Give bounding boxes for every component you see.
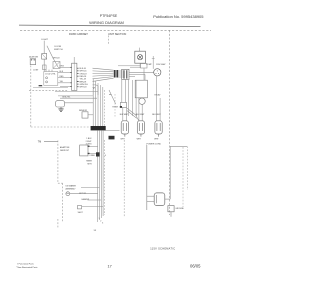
svg-text:115V 60HZ: 115V 60HZ	[156, 64, 166, 66]
ground	[60, 107, 62, 109]
svg-text:115V SCHEMATIC: 115V SCHEMATIC	[150, 247, 175, 250]
connector CN1	[72, 63, 77, 90]
compressor motor M1	[154, 69, 161, 76]
connector blob CN3	[109, 136, 115, 140]
run capacitor circle	[139, 98, 145, 104]
svg-text:CONT: CONT	[33, 70, 39, 72]
wires into connector left pins	[58, 67, 72, 86]
wire to relay block	[118, 65, 141, 67]
svg-text:* Non-Illuminated Parts: * Non-Illuminated Parts	[16, 266, 37, 269]
svg-text:# Functional Parts: # Functional Parts	[17, 262, 34, 265]
ice maker dashed border	[62, 183, 64, 222]
bus labels column	[86, 138, 96, 157]
svg-text:ADAPTIVE: ADAPTIVE	[60, 146, 70, 149]
svg-text:BLK WHT: BLK WHT	[152, 114, 161, 116]
top dashed border	[20, 29, 211, 31]
svg-text:UNIT SECTION: UNIT SECTION	[108, 32, 126, 36]
cord	[165, 198, 170, 200]
left dashed border	[30, 66, 32, 128]
dashed v right 1	[182, 147, 184, 207]
wire switch to bus	[53, 57, 58, 67]
connector bar CN2	[91, 126, 106, 130]
svg-text:RELAY: RELAY	[155, 93, 162, 96]
svg-text:WIRING DIAGRAM: WIRING DIAGRAM	[89, 20, 124, 25]
svg-text:HEATER: HEATER	[82, 198, 90, 201]
bus end labels	[99, 218, 104, 224]
overload protector box	[120, 103, 126, 108]
svg-text:BLK WHT: BLK WHT	[120, 114, 129, 116]
start relay arrow	[127, 108, 137, 116]
small component	[78, 206, 82, 209]
light switch S1 blade	[47, 46, 53, 58]
header rule	[19, 25, 201, 26]
svg-text:RED: RED	[60, 76, 65, 78]
svg-text:WHT: WHT	[137, 138, 142, 140]
svg-text:PTF54PSE: PTF54PSE	[100, 14, 118, 18]
wire loop to bus	[65, 102, 94, 104]
plug P3	[155, 121, 162, 137]
svg-text:ALM SW: ALM SW	[29, 55, 39, 58]
diagonal defrost limit	[109, 90, 116, 104]
ground box	[168, 206, 174, 212]
prong wires	[147, 195, 154, 197]
fan motor box	[139, 48, 141, 52]
wires to compressor	[129, 63, 154, 80]
connector pair CN4	[114, 70, 116, 78]
dashed v right 2	[186, 146, 188, 190]
svg-text:SWITCH: SWITCH	[54, 49, 63, 51]
svg-text:4 RED: 4 RED	[89, 155, 95, 157]
wire fan-out to unit section	[93, 68, 114, 95]
wires timer to bus	[90, 145, 98, 147]
door switch S3	[53, 62, 60, 69]
svg-text:BLK WHT: BLK WHT	[136, 114, 145, 116]
alarm switch S2	[30, 59, 36, 65]
svg-text:GROUND: GROUND	[175, 208, 184, 210]
svg-text:MTR: MTR	[88, 163, 93, 165]
lamp holder	[43, 65, 47, 70]
svg-text:3: 3	[102, 223, 103, 225]
svg-text:SHUT: SHUT	[78, 212, 84, 214]
wall plug	[154, 193, 165, 206]
wire	[58, 95, 93, 97]
power cord riser	[146, 145, 148, 210]
wire lamp to thermostat	[43, 59, 45, 71]
svg-text:ORG: ORG	[60, 66, 65, 68]
svg-text:17: 17	[107, 265, 111, 269]
wire color labels right of connector	[80, 68, 88, 89]
svg-text:FRZR CABINET: FRZR CABINET	[69, 32, 88, 36]
wire thermostat row	[33, 87, 68, 89]
svg-text:06/05: 06/05	[190, 264, 201, 269]
svg-text:Publication No. 5995438905: Publication No. 5995438905	[153, 14, 204, 19]
lower vertical bus	[98, 130, 103, 222]
wire sensor to bus	[88, 114, 93, 116]
ice maker wires	[70, 188, 103, 207]
svg-text:ASSEMBLY: ASSEMBLY	[66, 187, 77, 190]
svg-text:WHT-18: WHT-18	[80, 87, 87, 89]
wires down to plugs	[122, 76, 160, 121]
svg-text:YEL: YEL	[60, 81, 64, 83]
svg-text:DOOR: DOOR	[55, 46, 62, 48]
inner dashed box left border	[57, 141, 59, 184]
svg-text:WHT: WHT	[121, 138, 126, 140]
defrost timer box	[80, 145, 88, 156]
thermostat control box	[44, 72, 58, 86]
door heater loop	[56, 101, 65, 107]
dashed divider mid	[104, 90, 106, 126]
svg-text:TIMER: TIMER	[86, 161, 93, 163]
svg-text:COLD CTRL: COLD CTRL	[45, 74, 56, 76]
svg-text:WHT: WHT	[154, 138, 159, 140]
svg-text:XX: XX	[94, 230, 97, 232]
wire bus below connector	[55, 91, 98, 93]
connector blob CN6	[96, 152, 100, 156]
svg-text:LIGHT: LIGHT	[41, 39, 48, 41]
svg-text:TM: TM	[38, 141, 41, 143]
plug P2	[137, 121, 144, 137]
wires CN4 to CN5	[118, 71, 124, 77]
right dashed border	[169, 30, 171, 215]
connector CN1 pins	[70, 67, 78, 86]
wire lamp stem	[43, 41, 45, 54]
svg-text:POWER CORD: POWER CORD	[147, 144, 162, 146]
relay block	[141, 64, 148, 69]
lamp L1	[42, 54, 47, 60]
dashed divider plugs	[123, 140, 125, 217]
svg-text:ICE MAKER: ICE MAKER	[66, 185, 77, 188]
capacitor box	[135, 80, 147, 98]
dashed compartment bottom	[31, 126, 91, 128]
vertical wire bus	[93, 79, 103, 127]
svg-text:DEFROST: DEFROST	[60, 150, 70, 152]
dashed compartment step	[29, 90, 68, 92]
svg-text:3 ORG: 3 ORG	[86, 143, 92, 145]
wire	[60, 97, 97, 99]
plug P1	[121, 121, 128, 137]
connector box CN5	[122, 69, 129, 79]
section divider dashed	[108, 36, 110, 45]
wire compressor top	[152, 56, 154, 69]
dashed wire to plug	[104, 130, 119, 132]
ice maker motor	[66, 192, 70, 196]
